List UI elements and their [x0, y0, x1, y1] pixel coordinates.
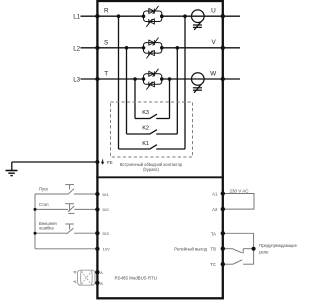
svg-text:TB: TB [211, 247, 217, 252]
svg-text:T: T [104, 71, 108, 78]
svg-text:W: W [210, 70, 217, 77]
svg-text:DI3: DI3 [103, 231, 110, 236]
svg-text:A2: A2 [212, 207, 218, 212]
svg-text:S: S [104, 39, 108, 46]
svg-text:B: B [100, 282, 103, 286]
svg-text:Стоп: Стоп [39, 202, 49, 207]
svg-text:DI2: DI2 [103, 207, 110, 212]
svg-text:реле: реле [259, 249, 269, 254]
svg-text:230 V AC: 230 V AC [230, 188, 250, 193]
svg-text:TC: TC [210, 262, 216, 267]
svg-text:Пуск: Пуск [39, 187, 48, 192]
svg-text:L2: L2 [73, 45, 80, 52]
svg-text:12V: 12V [103, 247, 110, 252]
svg-text:R: R [104, 8, 109, 15]
svg-text:A1: A1 [212, 192, 218, 197]
svg-text:ошибка: ошибка [39, 226, 54, 231]
svg-text:L1: L1 [73, 14, 80, 21]
svg-text:DI1: DI1 [103, 192, 110, 197]
svg-text:Релейный выход: Релейный выход [174, 246, 207, 251]
svg-text:Предупреждающее: Предупреждающее [259, 243, 297, 248]
svg-text:TA: TA [211, 231, 216, 236]
svg-text:RS485 ModBUS RTU: RS485 ModBUS RTU [115, 275, 157, 280]
svg-text:A: A [100, 271, 103, 275]
svg-text:V: V [212, 39, 217, 46]
svg-text:K2: K2 [142, 126, 149, 132]
svg-text:L3: L3 [73, 77, 80, 84]
svg-text:PE: PE [107, 160, 113, 165]
svg-text:K3: K3 [142, 110, 149, 116]
svg-text:(bypass): (bypass) [143, 167, 159, 172]
svg-text:K1: K1 [142, 141, 149, 147]
svg-text:U: U [211, 8, 216, 15]
